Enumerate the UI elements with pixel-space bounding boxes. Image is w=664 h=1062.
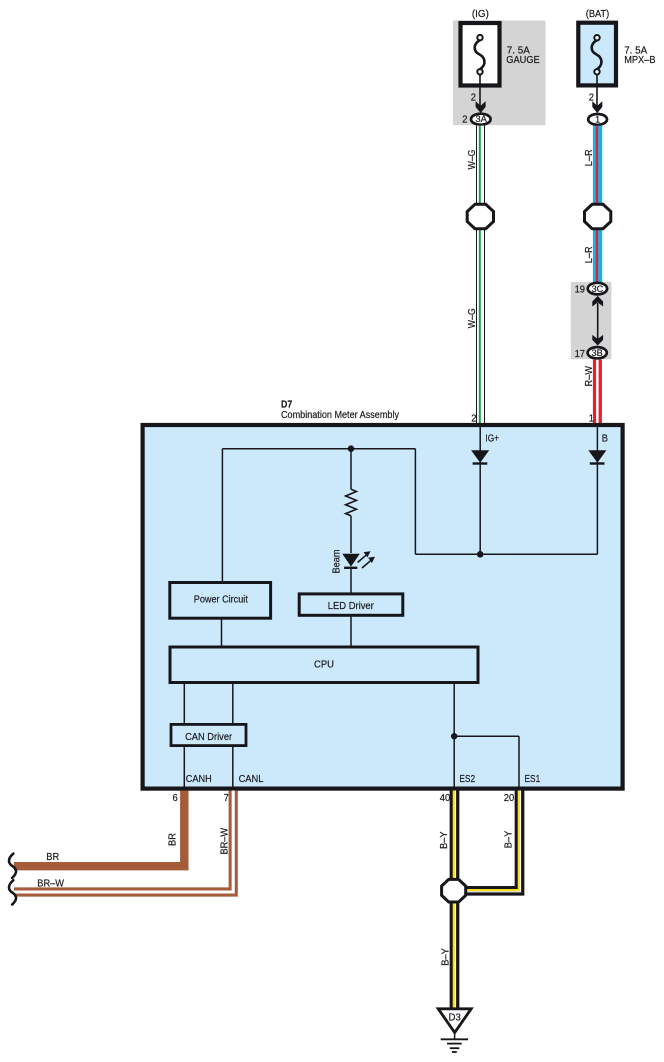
wire LED to LED Driver (350, 569, 352, 593)
svg-text:17: 17 (575, 349, 586, 360)
connector 3C (588, 283, 607, 295)
LED Driver box (299, 594, 403, 615)
arrow into connector 3A (476, 101, 486, 113)
wire CPU to CANH pin (183, 683, 185, 789)
svg-text:CPU: CPU (314, 660, 334, 671)
diode at IG+ (471, 450, 489, 463)
wire CPU to ES junction (453, 683, 455, 789)
svg-text:2: 2 (471, 93, 477, 104)
svg-text:2: 2 (471, 413, 477, 424)
fuse area gray background (IG) (453, 21, 546, 126)
arrow into connector 1 (592, 101, 602, 113)
svg-text:3B: 3B (592, 348, 603, 358)
svg-text:Beam: Beam (332, 549, 343, 573)
connector 3B (588, 347, 607, 358)
svg-text:2: 2 (462, 115, 468, 126)
svg-text:6: 6 (173, 793, 179, 804)
internal wire from B pin (596, 427, 598, 555)
wire L-R from connector 1 to 3C (592, 126, 602, 282)
svg-text:Combination Meter Assembly: Combination Meter Assembly (281, 410, 399, 421)
top horizontal wire (222, 448, 415, 450)
ES horizontal wire (454, 735, 519, 737)
svg-text:L–R: L–R (584, 149, 595, 166)
wire fuse IG to connector (479, 88, 481, 107)
junction dot at diode rail (477, 551, 484, 558)
svg-text:BR: BR (167, 833, 178, 846)
fuse F1 7.5A GAUGE (IG) (461, 23, 500, 88)
CPU box (170, 647, 478, 683)
svg-text:CANH: CANH (186, 774, 212, 785)
svg-text:BR–W: BR–W (37, 878, 64, 889)
wire Power Circuit to CPU (221, 618, 223, 647)
svg-text:7: 7 (224, 793, 230, 804)
diode at B (588, 450, 606, 463)
wire B-Y from octagon to ground (454, 904, 456, 1011)
svg-text:BR–W: BR–W (220, 827, 231, 854)
wire B-Y from pin 40 to octagon (454, 791, 456, 880)
connector 3A (471, 114, 491, 125)
svg-text:CAN Driver: CAN Driver (185, 732, 233, 743)
wire fuse BAT to connector (596, 88, 598, 107)
svg-text:GAUGE: GAUGE (506, 55, 540, 66)
horizontal wire joining diodes (415, 553, 597, 555)
svg-text:19: 19 (575, 285, 586, 296)
svg-text:MPX–B: MPX–B (624, 55, 656, 66)
svg-text:1: 1 (589, 413, 595, 424)
octagon connector on W-G wire (467, 204, 493, 228)
fuse F2 7.5A MPX-B (BAT) (578, 23, 616, 88)
double arrow between 3C and 3B (592, 296, 603, 346)
resistor R (346, 449, 357, 553)
continuation squiggle BR-W (9, 880, 16, 904)
internal wire from IG+ pin (479, 427, 481, 555)
svg-text:B: B (602, 433, 609, 444)
junction dot ES (451, 733, 457, 739)
wire B-Y from pin 20 to octagon (466, 791, 521, 892)
svg-text:20: 20 (504, 793, 515, 804)
wire LED Driver to CPU (350, 615, 352, 647)
svg-text:1: 1 (595, 115, 600, 125)
svg-text:ES1: ES1 (525, 774, 541, 785)
svg-text:L–R: L–R (584, 246, 595, 263)
wire R-W from 3B to meter (593, 360, 602, 424)
connector 1 (588, 114, 607, 125)
wire CPU to CANL pin (232, 683, 234, 789)
svg-text:40: 40 (440, 793, 451, 804)
svg-text:CANL: CANL (239, 774, 264, 785)
svg-text:ES2: ES2 (459, 774, 475, 785)
junction gray background 3C/3B (571, 282, 612, 359)
svg-text:D7: D7 (281, 400, 293, 411)
svg-text:LED Driver: LED Driver (328, 601, 375, 612)
wire BR-W from pin 7 (14, 791, 233, 893)
wire BR from pin 6 (14, 791, 184, 867)
combination meter assembly box D7 (143, 425, 623, 789)
svg-text:(BAT): (BAT) (586, 9, 610, 20)
svg-text:2: 2 (589, 93, 595, 104)
LED Beam (342, 551, 375, 568)
svg-text:B–Y: B–Y (504, 830, 515, 848)
wire W-G from 3A to meter (475, 126, 485, 424)
octagon connector on L-R wire (585, 204, 611, 228)
octagon ground junction (442, 879, 466, 902)
svg-text:3A: 3A (475, 114, 487, 124)
riser wire (414, 449, 416, 555)
svg-text:3C: 3C (592, 284, 604, 294)
svg-text:B–Y: B–Y (439, 831, 450, 849)
wire to ES1 pin (518, 736, 520, 788)
junction dot at resistor branch (348, 445, 355, 452)
left vertical wire to Power Circuit (221, 449, 223, 582)
svg-text:BR: BR (46, 852, 59, 863)
label 7.5A MPX-B (624, 46, 656, 66)
svg-text:W–G: W–G (467, 149, 478, 169)
label 7.5A GAUGE (506, 46, 540, 66)
svg-text:B–Y: B–Y (440, 948, 451, 966)
ground symbol (441, 1033, 468, 1052)
continuation squiggle BR (9, 854, 16, 878)
Power Circuit box (170, 583, 271, 619)
svg-text:Power Circuit: Power Circuit (194, 594, 248, 605)
svg-text:R–W: R–W (584, 365, 595, 386)
svg-text:(IG): (IG) (472, 9, 489, 20)
CAN Driver box (171, 724, 246, 745)
svg-text:D3: D3 (449, 1013, 462, 1024)
svg-text:W–G: W–G (467, 308, 478, 328)
svg-text:IG+: IG+ (485, 433, 499, 444)
ground triangle D3 (438, 1009, 471, 1033)
